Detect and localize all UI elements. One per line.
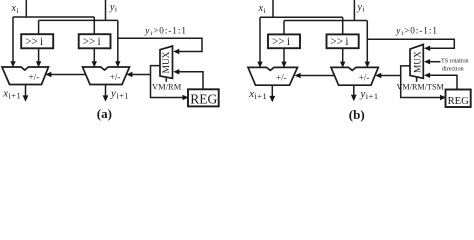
- svg-text:REG: REG: [448, 96, 470, 107]
- wire control to adder A4: [380, 75, 401, 77]
- svg-text:REG: REG: [190, 91, 217, 106]
- shifter S3 box: [268, 34, 300, 48]
- wire reg R2 feedback up: [429, 75, 457, 89]
- wire y right drop to adder A2: [117, 20, 119, 62]
- wire TS direction input: [429, 61, 441, 63]
- wire x right drop into shifter S2: [93, 17, 95, 34]
- wire x top rail b: [260, 16, 343, 18]
- svg-text:+/-: +/-: [110, 72, 121, 82]
- arrowhead control into adder A1: [45, 72, 51, 77]
- shifter S4 box: [327, 34, 359, 48]
- wire x left drop to adder A1: [12, 17, 14, 62]
- wire y left drop into shifter S1: [38, 20, 40, 34]
- adder A1: [2, 67, 49, 85]
- mux M2: [410, 45, 423, 79]
- wire shifter S2 output: [93, 48, 95, 62]
- svg-text:TS rotation: TS rotation: [441, 58, 469, 64]
- wire mux M2 select stub: [416, 77, 418, 82]
- arrowhead control into adder A4: [375, 73, 381, 78]
- svg-text:+/-: +/-: [359, 73, 370, 83]
- arrowhead into adder A1 right input: [36, 61, 41, 67]
- shifter S2 box: [79, 34, 111, 48]
- wire shifter S4 output: [342, 48, 344, 62]
- wire output x_i+1: [25, 85, 27, 98]
- arrowhead into adder A3 right input: [281, 62, 286, 68]
- wire mux M1 output left: [151, 66, 184, 98]
- arrowhead into adder A4 left input: [340, 62, 345, 68]
- arrowhead into adder A4 right input: [365, 62, 370, 68]
- arrowhead mux out into reg R2: [440, 95, 446, 100]
- svg-text:>> i: >> i: [25, 36, 43, 48]
- arrowhead output y_i+1: [103, 95, 109, 101]
- arrowhead output y_i+1 b: [351, 95, 357, 101]
- shifter S1 box: [21, 34, 53, 48]
- svg-text:direction: direction: [442, 66, 464, 72]
- wire y right drop to adder A4: [366, 21, 368, 63]
- svg-text:+/-: +/-: [276, 73, 287, 83]
- svg-text:>> i: >> i: [83, 36, 101, 48]
- arrowhead into adder A3 left input: [257, 62, 262, 68]
- arrowhead into adder A2 right input: [115, 61, 120, 67]
- wire y_i input b: [353, 0, 355, 21]
- arrowhead control into adder A2: [126, 72, 132, 77]
- arrowhead into adder A2 left input: [92, 61, 97, 67]
- arrowhead mux out into reg R1: [183, 95, 189, 100]
- wire shifter S3 output: [283, 48, 285, 62]
- wire output y_i+1 b: [353, 85, 355, 96]
- wire control to adder A2: [131, 74, 151, 76]
- wire output x_i+1 b: [271, 85, 273, 97]
- svg-text:(a): (a): [97, 106, 112, 121]
- wire y left drop into shifter S3: [283, 21, 285, 35]
- arrowhead control into adder A3: [295, 73, 301, 78]
- wire control to adder A3: [299, 75, 335, 77]
- svg-text:VM/RM/TSM: VM/RM/TSM: [397, 83, 445, 92]
- wire shifter S1 output: [38, 48, 40, 62]
- wire y_i input: [105, 0, 107, 20]
- svg-text:MUX: MUX: [414, 51, 424, 73]
- svg-text:>> i: >> i: [272, 36, 290, 48]
- register R1 box: [188, 89, 219, 106]
- wire x left drop to adder A3: [259, 17, 261, 62]
- arrowhead reg feedback into mux M1: [173, 69, 179, 74]
- wire control to adder A1: [50, 74, 86, 76]
- adder A3: [248, 67, 298, 85]
- wire reg R1 feedback up: [178, 72, 203, 90]
- arrowhead into adder A1 left input: [10, 61, 15, 67]
- wire mux M2 output: [401, 66, 441, 98]
- register R2 box: [446, 90, 471, 108]
- wire x right drop into shifter S4: [342, 17, 344, 34]
- arrowhead TS direction into mux M2: [424, 59, 430, 64]
- wire y rail b: [284, 20, 367, 22]
- wire output y_i+1: [105, 85, 107, 98]
- svg-text:MUX: MUX: [162, 51, 172, 73]
- adder A4: [331, 67, 378, 85]
- wire x_i input b: [272, 0, 274, 17]
- wire sign line b: [367, 39, 454, 48]
- arrowhead sign into mux M1: [173, 49, 179, 54]
- svg-text:+/-: +/-: [29, 72, 40, 82]
- arrowhead reg feedback into mux M2: [424, 73, 430, 78]
- wire sign line from node y to corner: [118, 38, 202, 51]
- wire x_i input: [25, 0, 27, 17]
- mux M1: [160, 46, 173, 78]
- svg-text:(b): (b): [349, 107, 365, 122]
- arrowhead output x_i+1 b: [269, 96, 275, 102]
- wire y rail: [39, 19, 118, 21]
- wire mux M1 select stub: [165, 77, 167, 82]
- wire x top rail: [13, 16, 94, 18]
- adder A2: [83, 67, 130, 85]
- arrowhead output x_i+1: [23, 95, 29, 101]
- arrowhead sign into mux M2: [424, 46, 430, 51]
- svg-text:>> i: >> i: [331, 36, 349, 48]
- svg-text:VM/RM: VM/RM: [152, 82, 182, 92]
